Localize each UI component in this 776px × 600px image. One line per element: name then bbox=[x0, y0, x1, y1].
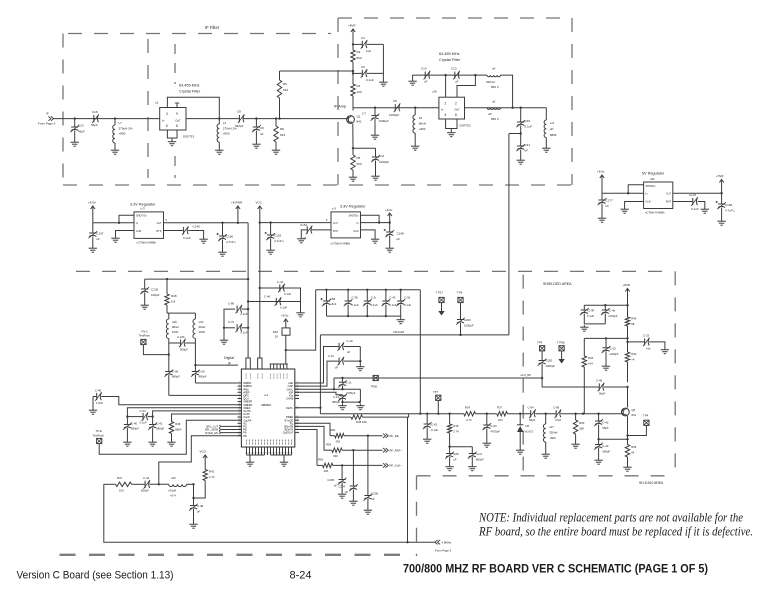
capacitor C163 bbox=[426, 414, 428, 424]
resistor R40 bbox=[625, 317, 629, 326]
wire VCC rail bbox=[259, 212, 261, 358]
ground bbox=[342, 404, 344, 406]
node L4 bypass rejoin bbox=[511, 107, 513, 109]
wire TP-E to IC bbox=[99, 420, 241, 454]
svg-text:5V Regulator: 5V Regulator bbox=[642, 172, 665, 176]
svg-text:4700pF: 4700pF bbox=[346, 391, 356, 395]
ground bbox=[471, 465, 473, 467]
wire row segment 4 bbox=[561, 413, 623, 415]
capacitor C112 bbox=[342, 395, 344, 396]
svg-text:C177: C177 bbox=[606, 199, 614, 203]
wire 5V bypass pin bbox=[673, 201, 693, 203]
svg-text:R36: R36 bbox=[453, 424, 459, 428]
wire C161 left to ground bbox=[92, 397, 94, 409]
resistor R38 bbox=[169, 422, 173, 434]
svg-text:uLO_RF: uLO_RF bbox=[521, 373, 532, 377]
wire cap bank right drop bbox=[419, 290, 421, 414]
svg-text:+8.9V: +8.9V bbox=[88, 201, 96, 205]
svg-text:L8: L8 bbox=[419, 116, 423, 120]
node R8 junction bbox=[275, 117, 277, 119]
svg-text:u20: u20 bbox=[171, 476, 176, 480]
svg-text:C6: C6 bbox=[361, 65, 365, 69]
shielded area dashed right edge bbox=[674, 271, 676, 475]
svg-text:8-24: 8-24 bbox=[290, 570, 312, 582]
svg-text:Version C Board (see Section 1: Version C Board (see Section 1.13) bbox=[17, 570, 174, 582]
wire VREFP pin to filter column A bbox=[127, 408, 241, 417]
wire C151 to ground bbox=[301, 230, 307, 237]
svg-text:3: 3 bbox=[166, 112, 168, 116]
svg-text:1uF: 1uF bbox=[366, 49, 371, 53]
wire collector output line bbox=[353, 107, 439, 109]
ground bbox=[375, 174, 377, 176]
transistor Q6 bbox=[621, 408, 629, 416]
IC U501 bottom pin stubs bbox=[246, 447, 248, 455]
inductor L2 bbox=[218, 119, 220, 124]
capacitor C5 bbox=[394, 104, 396, 111]
wire C4/C6 common to ground bbox=[382, 44, 384, 80]
svg-text:R4: R4 bbox=[357, 84, 361, 88]
svg-text:330nH: 330nH bbox=[549, 431, 557, 435]
svg-text:SHDTEn: SHDTEn bbox=[349, 215, 359, 218]
arrow TP27 down bbox=[441, 303, 443, 311]
node emitter junction bbox=[352, 147, 354, 149]
svg-text:SHDT En: SHDT En bbox=[136, 215, 147, 218]
svg-text:100pF: 100pF bbox=[151, 293, 160, 297]
wire oscillator top bbox=[167, 312, 195, 314]
svg-text:0.1uF: 0.1uF bbox=[431, 428, 438, 432]
ground bbox=[222, 250, 224, 252]
svg-text:u4: u4 bbox=[492, 67, 496, 71]
node RF_RE junction bbox=[367, 435, 369, 437]
node R6 junction bbox=[278, 117, 280, 119]
svg-text:R42: R42 bbox=[209, 470, 215, 474]
svg-text:Digital: Digital bbox=[224, 356, 234, 360]
wire U5 bypass bbox=[311, 229, 331, 231]
svg-text:+8.9v: +8.9v bbox=[597, 170, 605, 174]
ground bbox=[450, 131, 452, 133]
node R36 junction bbox=[448, 413, 450, 415]
svg-text:C30: C30 bbox=[525, 119, 531, 123]
svg-text:uF: uF bbox=[260, 132, 264, 136]
resistor R50b bbox=[575, 414, 577, 420]
svg-text:+000pF: +000pF bbox=[608, 314, 618, 318]
svg-text:+0u: +0u bbox=[646, 347, 651, 351]
wire U4 ground pin bbox=[116, 231, 135, 237]
svg-text:C-40: C-40 bbox=[131, 422, 138, 426]
svg-text:OuT: OuT bbox=[666, 193, 671, 196]
svg-text:6: 6 bbox=[166, 124, 168, 128]
node bypass branch bbox=[626, 304, 628, 306]
svg-text:R5: R5 bbox=[357, 156, 361, 160]
wire collector node bbox=[627, 387, 629, 408]
capacitor C151 bbox=[306, 226, 308, 233]
svg-text:1000pF: 1000pF bbox=[389, 113, 399, 117]
connector RF_RAF~ bbox=[383, 448, 386, 452]
wire iOP pin to C112 bbox=[295, 392, 343, 395]
svg-text:GnD: GnD bbox=[353, 230, 358, 233]
ground bbox=[426, 437, 428, 439]
svg-text:C-63: C-63 bbox=[431, 423, 438, 427]
wire tap to emitter bbox=[599, 438, 628, 440]
connector 4.8MHz from page 5 bbox=[435, 540, 438, 544]
svg-text:270nH 2%: 270nH 2% bbox=[119, 127, 133, 131]
resistor R56b bbox=[625, 445, 629, 458]
svg-text:uF: uF bbox=[525, 149, 529, 153]
ground bbox=[171, 440, 173, 442]
svg-text:Q6: Q6 bbox=[632, 408, 636, 412]
resistor R36 bbox=[449, 414, 451, 424]
svg-text:BYP: BYP bbox=[156, 230, 161, 233]
svg-text:SHIELDED AREA: SHIELDED AREA bbox=[543, 282, 572, 286]
svg-text:T P4: T P4 bbox=[643, 414, 649, 418]
inductor L27 bbox=[545, 414, 547, 424]
svg-text:0.1uF: 0.1uF bbox=[366, 78, 374, 82]
wire long LO vertical to shielded area bbox=[508, 134, 510, 335]
node L27 junction bbox=[545, 413, 547, 415]
wire to shunt network bbox=[243, 118, 347, 120]
svg-text:C206: C206 bbox=[371, 492, 378, 496]
svg-text:0.1uF: 0.1uF bbox=[525, 125, 533, 129]
wire U5 output to VCC bbox=[260, 222, 331, 224]
svg-text:6: 6 bbox=[239, 397, 240, 399]
capacitor C30 bbox=[520, 108, 522, 122]
svg-text:C-06: C-06 bbox=[172, 370, 179, 374]
wire BOuTB row to RF_RAF bbox=[295, 426, 324, 450]
wire 5V reg input bbox=[602, 192, 644, 194]
svg-text:R50: R50 bbox=[318, 458, 324, 462]
capacitor C135 bbox=[628, 341, 645, 343]
svg-text:C149: C149 bbox=[193, 225, 201, 229]
node R50b junction bbox=[574, 413, 576, 415]
capacitor C134 bridge bbox=[127, 416, 143, 418]
node C7 junction bbox=[374, 107, 376, 109]
capacitor C153 bbox=[270, 223, 272, 235]
svg-text:0.1uF: 0.1uF bbox=[241, 331, 248, 335]
svg-text:330: 330 bbox=[336, 439, 341, 443]
svg-text:IF Amp: IF Amp bbox=[334, 105, 346, 109]
node bottom rail junction bbox=[406, 541, 408, 543]
svg-text:634: 634 bbox=[280, 133, 285, 137]
svg-text:47pF: 47pF bbox=[555, 418, 562, 422]
capacitor C149 bbox=[183, 227, 185, 234]
svg-text:0.1uF: 0.1uF bbox=[371, 303, 378, 307]
svg-text:680pF: 680pF bbox=[172, 375, 180, 379]
svg-text:C80: C80 bbox=[453, 452, 459, 456]
svg-text:0.1uF: 0.1uF bbox=[183, 236, 191, 240]
svg-text:OuT: OuT bbox=[454, 108, 460, 112]
wire C161 to IC pin bbox=[108, 397, 242, 405]
IC U501 left pin stubs bbox=[238, 382, 242, 384]
ground bbox=[144, 303, 146, 305]
capacitor C14 bbox=[424, 72, 426, 79]
wire C149 to ground bbox=[188, 231, 203, 238]
wire uNe pin bypass loop bbox=[295, 347, 339, 384]
svg-text:68uH: 68uH bbox=[199, 325, 206, 329]
svg-text:8: 8 bbox=[455, 113, 457, 117]
capacitor C210 bbox=[471, 447, 473, 454]
capacitor C18 bbox=[92, 118, 94, 120]
svg-text:TP50: TP50 bbox=[371, 385, 378, 389]
svg-text:+4: +4 bbox=[631, 358, 635, 362]
node L7 junction bbox=[114, 117, 116, 119]
ground bbox=[152, 440, 154, 442]
svg-text:C-43: C-43 bbox=[277, 280, 284, 284]
rail bypass C143 bbox=[248, 301, 297, 303]
svg-text:+800: +800 bbox=[119, 132, 126, 136]
regulator U6 5V bbox=[644, 182, 673, 209]
wire U3 pin stub to bypass bbox=[445, 75, 447, 97]
ground bbox=[519, 448, 521, 450]
svg-text:+8VR: +8VR bbox=[348, 24, 356, 28]
ground bbox=[601, 216, 603, 218]
ground bbox=[374, 133, 376, 135]
svg-text:860uF: 860uF bbox=[476, 458, 484, 462]
wire main bottom row bbox=[320, 413, 463, 415]
capacitor C142b bbox=[152, 417, 154, 425]
transistor Q1 IF amplifier bbox=[347, 116, 355, 124]
middle region dashed top edge bbox=[76, 270, 674, 272]
svg-text:1000pF: 1000pF bbox=[379, 119, 389, 123]
lower region dashed right edge bbox=[416, 476, 418, 556]
ground bbox=[583, 325, 585, 327]
svg-text:2.74: 2.74 bbox=[209, 475, 215, 479]
svg-text:uF: uF bbox=[334, 484, 338, 488]
svg-text:OuT: OuT bbox=[157, 222, 162, 225]
node RF_RAF junction bbox=[352, 449, 354, 451]
svg-text:Vr2-03: Vr2-03 bbox=[525, 430, 534, 434]
node C6 branch bbox=[352, 72, 354, 74]
capacitor C126 bbox=[144, 279, 146, 289]
svg-text:TP7: TP7 bbox=[433, 390, 439, 394]
svg-text:2: 2 bbox=[455, 102, 457, 106]
ground bbox=[575, 442, 577, 444]
svg-text:8806: 8806 bbox=[550, 133, 557, 137]
svg-text:C18: C18 bbox=[92, 110, 98, 114]
svg-text:+800: +800 bbox=[223, 132, 230, 136]
svg-text:4.7uF L: 4.7uF L bbox=[725, 209, 736, 213]
wire C204 column bbox=[352, 450, 354, 486]
capacitor C164 bbox=[530, 410, 532, 417]
capacitor C148b bbox=[192, 497, 194, 499]
svg-text:4.7uF L: 4.7uF L bbox=[274, 239, 285, 243]
svg-text:9: 9 bbox=[176, 112, 178, 116]
wire C140 to IC bbox=[169, 394, 242, 396]
wire osc branch to digital if bbox=[195, 364, 238, 366]
resistor R6 bbox=[279, 98, 281, 119]
svg-text:64: 64 bbox=[631, 451, 635, 455]
wire Q6 emitter bbox=[627, 416, 629, 444]
IF Filter inner partition dashed line x=175 bbox=[174, 44, 176, 84]
wire CAYL pin filter bbox=[295, 388, 361, 390]
node R48 junction bbox=[166, 278, 168, 280]
ground bbox=[721, 219, 723, 221]
svg-text:4: 4 bbox=[296, 431, 297, 433]
capacitor C138 bbox=[604, 305, 606, 310]
svg-text:130: 130 bbox=[357, 90, 362, 94]
svg-text:uF: uF bbox=[371, 497, 375, 501]
svg-text:560pF: 560pF bbox=[235, 124, 244, 128]
ground bbox=[367, 508, 369, 510]
node R40 bottom junction bbox=[626, 337, 628, 339]
svg-text:+8uF: +8uF bbox=[330, 302, 337, 306]
svg-text:IF: IF bbox=[46, 112, 49, 116]
wire DGnd vertical to row bbox=[319, 335, 321, 414]
svg-text:390nH: 390nH bbox=[486, 80, 495, 84]
svg-text:u-6: u-6 bbox=[550, 121, 555, 125]
svg-text:TestPoint: TestPoint bbox=[139, 334, 151, 338]
resistor R5 bbox=[351, 155, 355, 170]
svg-text:1.8nF: 1.8nF bbox=[96, 401, 103, 405]
svg-text:L7: L7 bbox=[119, 121, 123, 125]
node L8 junction bbox=[414, 107, 416, 109]
shielded area dashed left edge bbox=[522, 275, 524, 476]
node emitter tap junction bbox=[626, 438, 628, 440]
svg-text:56K: 56K bbox=[579, 427, 584, 431]
svg-text:4.8MHz: 4.8MHz bbox=[442, 541, 452, 545]
capacitor C200 bbox=[460, 303, 462, 320]
node C30/C31 tap bbox=[520, 132, 522, 134]
svg-text:2: 2 bbox=[445, 102, 447, 106]
wire Q1 emitter bbox=[352, 124, 354, 148]
svg-text:56pF: 56pF bbox=[599, 392, 606, 396]
svg-text:860 3: 860 3 bbox=[491, 85, 499, 89]
capacitor C4 bbox=[353, 43, 362, 45]
svg-text:C-46: C-46 bbox=[264, 295, 271, 299]
capacitor C31 bbox=[520, 134, 522, 147]
svg-text:+0-4: +0-4 bbox=[170, 494, 176, 498]
wire U3 ground pins bbox=[446, 119, 457, 129]
svg-text:2.74: 2.74 bbox=[453, 430, 459, 434]
wire iOuTL pin tie bbox=[295, 407, 321, 409]
svg-text:C201: C201 bbox=[546, 359, 553, 363]
capacitor C187 bbox=[598, 414, 600, 421]
rail bypass C142 bbox=[260, 287, 297, 289]
wire 5V reg ground pin bbox=[625, 202, 644, 208]
connector RF_RE bbox=[383, 434, 386, 438]
inductor L8 bbox=[414, 108, 416, 115]
svg-text:C-106: C-106 bbox=[177, 335, 185, 339]
svg-text:64.455 MHz: 64.455 MHz bbox=[439, 52, 460, 56]
svg-text:680pF: 680pF bbox=[199, 375, 207, 379]
wire +8 rail down to IC bbox=[247, 223, 249, 358]
wire main input line bbox=[54, 118, 160, 120]
svg-text:C-4d: C-4d bbox=[609, 309, 616, 313]
wire uLO_RF line bbox=[334, 377, 542, 379]
capacitor C141 bbox=[192, 371, 199, 373]
svg-text:R37: R37 bbox=[497, 405, 503, 409]
wire BOuTA row to RF_CuK bbox=[295, 430, 317, 466]
node VCC reg2 tie bbox=[259, 221, 261, 223]
inductor L7 bbox=[114, 119, 116, 125]
svg-text:841: 841 bbox=[357, 120, 362, 124]
wire bottom pin bus left bbox=[247, 454, 265, 456]
wire osc right column bbox=[194, 343, 196, 372]
ground bbox=[283, 460, 285, 462]
capacitor C11 bbox=[375, 148, 377, 157]
svg-text:2: 2 bbox=[239, 385, 240, 387]
svg-text:u30: u30 bbox=[199, 320, 204, 324]
svg-text:uP: uP bbox=[550, 127, 554, 131]
IF Filter inner partition dashed line x=148 bbox=[147, 39, 149, 178]
svg-text:C-4d: C-4d bbox=[602, 421, 609, 425]
svg-text:680pF: 680pF bbox=[156, 427, 164, 431]
node R36 bottom junction bbox=[448, 446, 450, 448]
crystal filter U1 64.455 MHz bbox=[160, 108, 186, 131]
capacitor C204 bbox=[350, 485, 357, 487]
svg-text:1000: 1000 bbox=[172, 330, 179, 334]
svg-text:680pF: 680pF bbox=[131, 427, 139, 431]
svg-text:0.1uF: 0.1uF bbox=[389, 303, 396, 307]
test point TP2 bbox=[141, 339, 146, 344]
svg-text:860 3: 860 3 bbox=[491, 117, 499, 121]
node input junction bbox=[74, 117, 76, 119]
svg-text:u-3: u-3 bbox=[332, 207, 336, 211]
shielded area dashed bottom edge bbox=[417, 475, 676, 477]
svg-text:uF: uF bbox=[345, 490, 349, 494]
svg-text:RF_CuK~: RF_CuK~ bbox=[390, 464, 403, 468]
svg-text:26: 26 bbox=[275, 335, 279, 339]
wire C112 bottom node bbox=[343, 401, 361, 403]
pin U1 pin9 stub bbox=[176, 103, 178, 108]
svg-text:6.8: 6.8 bbox=[171, 300, 176, 304]
capacitor C205 bbox=[339, 479, 346, 481]
wire U4 output bbox=[164, 222, 249, 224]
node shutdown tie bbox=[118, 222, 120, 224]
IC U501 top pin pair A with staple from +8 rail bbox=[246, 358, 248, 369]
wire bypass rail bbox=[413, 74, 487, 76]
node C139 junction bbox=[605, 337, 607, 339]
wire oscillator bottom bbox=[169, 342, 181, 344]
resistor R43 bbox=[625, 352, 629, 362]
wire bypass common ground bbox=[359, 347, 361, 365]
capacitor C133 bbox=[242, 327, 248, 329]
node C187/C188 tap bbox=[597, 438, 599, 440]
svg-text:C88: C88 bbox=[330, 297, 336, 301]
ground bbox=[545, 146, 547, 148]
ground bbox=[341, 492, 343, 494]
wire U5 input bbox=[361, 222, 390, 224]
wire C205 column bbox=[341, 465, 343, 479]
svg-text:TP4: TP4 bbox=[537, 340, 543, 344]
ground bbox=[255, 142, 257, 144]
svg-text:+8.9v: +8.9v bbox=[281, 314, 289, 318]
ground bbox=[704, 207, 706, 209]
capacitor C168 bbox=[555, 410, 557, 417]
ground bbox=[389, 246, 391, 248]
svg-text:560pF: 560pF bbox=[602, 450, 610, 454]
resistor R47 bbox=[116, 482, 132, 486]
svg-text:100: 100 bbox=[119, 489, 124, 493]
wire VREFN pin to column B bbox=[153, 411, 242, 417]
svg-text:u27: u27 bbox=[549, 425, 554, 429]
node R42/C148 junction bbox=[192, 483, 194, 485]
svg-text:R46: R46 bbox=[588, 356, 594, 360]
ferrite bead R54 bbox=[282, 328, 290, 335]
svg-text:56pF: 56pF bbox=[91, 123, 98, 127]
svg-text:3.3V Regulator: 3.3V Regulator bbox=[340, 205, 366, 209]
svg-text:uF: uF bbox=[455, 80, 459, 84]
wire U3 pin2b jog to bypass bbox=[457, 75, 475, 97]
capacitor C129 bbox=[366, 289, 368, 291]
svg-text:C31: C31 bbox=[525, 143, 531, 147]
svg-text:R54: R54 bbox=[326, 442, 332, 446]
svg-text:56pF: 56pF bbox=[602, 426, 609, 430]
ground bbox=[352, 175, 354, 177]
capacitor C132 bbox=[242, 308, 248, 310]
node C30 junction bbox=[520, 107, 522, 109]
wire uLO_RF to shielded area bbox=[542, 378, 599, 387]
wire L4 to output junction bbox=[501, 75, 513, 108]
